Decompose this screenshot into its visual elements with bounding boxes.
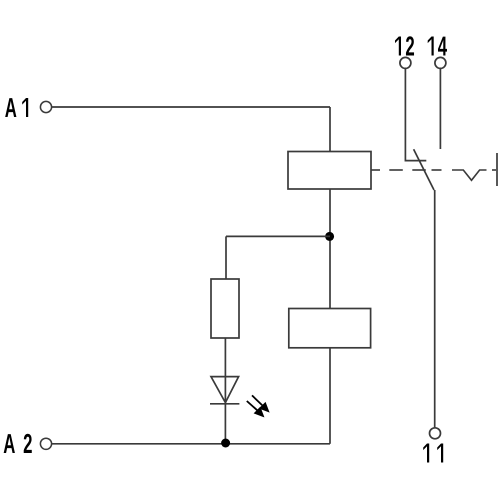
node junction upper [325, 232, 334, 241]
wire A1 horizontal [52, 106, 331, 108]
mechanical linkage dashed line [371, 170, 496, 180]
wire resistor to LED [224, 338, 226, 443]
label A1 [5, 92, 28, 123]
terminal A1 [40, 101, 51, 112]
wire contact 12 [405, 69, 426, 161]
terminal 12 [400, 57, 411, 68]
svg-text:A: A [5, 92, 17, 123]
wire coil bottom to node [329, 189, 331, 309]
aux box (suppressor) [289, 309, 371, 348]
label 11 [423, 444, 443, 463]
wire A1 vertical to coil [329, 107, 331, 152]
LED arrow 2 [247, 401, 264, 416]
svg-text:2: 2 [23, 428, 32, 459]
terminal 11 [430, 428, 441, 439]
switch moving contact [414, 149, 434, 190]
wire A2 horizontal [52, 443, 331, 445]
LED cathode bar [210, 403, 239, 405]
wire contact 14 [439, 69, 441, 150]
terminal A2 [40, 438, 51, 449]
resistor R1 [211, 279, 239, 338]
label A2 [3, 428, 32, 459]
wire branch vertical to resistor [225, 236, 227, 279]
svg-text:2: 2 [405, 31, 414, 62]
stop bar [496, 153, 498, 186]
node junction lower [221, 439, 230, 448]
wire contact 11 [434, 190, 436, 427]
svg-text:4: 4 [438, 31, 448, 62]
label 14 [428, 31, 448, 62]
terminal 14 [435, 57, 446, 68]
LED arrow 1 [252, 395, 269, 411]
svg-text:A: A [3, 428, 15, 459]
wire up to aux box [329, 348, 331, 444]
label 12 [395, 31, 415, 62]
wire branch horizontal [226, 235, 330, 237]
relay coil K1 [288, 152, 371, 190]
LED D1 triangle [211, 377, 239, 403]
